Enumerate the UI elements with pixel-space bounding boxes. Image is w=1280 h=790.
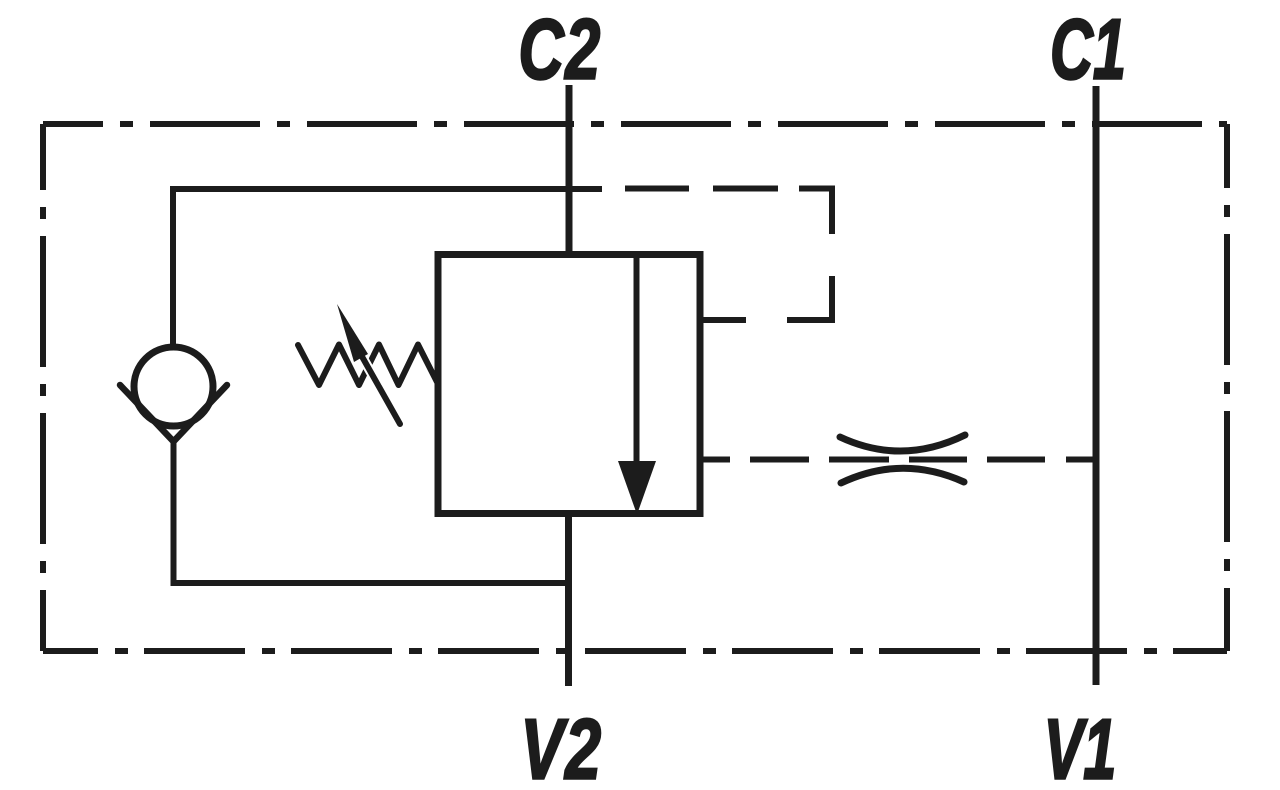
port line V2 [565,512,572,686]
orifice restrictor lower curve [841,468,964,483]
pilot line dash d [987,457,1045,463]
enclosure boundary left (dash-dot) [40,124,46,651]
port label C1 [1050,2,1126,97]
pilot line dash e [1066,457,1096,463]
adjustment arrow shaft [360,353,400,424]
port line C1-V1 [1093,86,1100,685]
pilot line dash b [829,457,889,463]
check valve outlet branch (bottom run to V2 junction) [174,438,570,583]
adjustment arrow halo [360,353,400,424]
port label V2 [520,702,602,790]
port line C2 [566,85,573,257]
orifice restrictor upper curve [840,435,965,451]
adjustment arrow head [337,304,368,362]
svg-text:C2: C2 [518,1,601,96]
valve internal flow arrow head [618,461,656,515]
pilot line dash a [750,457,809,463]
vent pilot line corner dash upper [799,189,832,235]
check valve seat [120,385,227,442]
pilot line dash c [909,457,967,463]
port label C2 [518,1,601,96]
spring (adjustable) [298,345,437,386]
svg-text:C1: C1 [1050,2,1126,97]
check valve ball circle [134,347,213,426]
vent pilot line dash 2 [713,186,778,192]
vent pilot line stub at valve [700,317,746,323]
port label V1 [1044,702,1117,790]
check valve inlet branch (top run to C2 junction) [173,189,602,344]
valve internal flow arrow shaft [634,255,640,464]
enclosure boundary right (dash-dot) [1224,124,1230,651]
vent pilot line corner dash lower [787,276,832,320]
enclosure boundary top (dash-dot) [43,121,1227,127]
enclosure boundary bottom (dash-dot) [43,648,1227,654]
svg-text:V1: V1 [1044,702,1117,790]
svg-text:V2: V2 [520,702,602,790]
valve body (pilot-operated relief envelope) [438,255,700,514]
vent pilot line dash 1 [625,186,689,192]
pilot line stub at valve (orifice line) [700,457,730,463]
